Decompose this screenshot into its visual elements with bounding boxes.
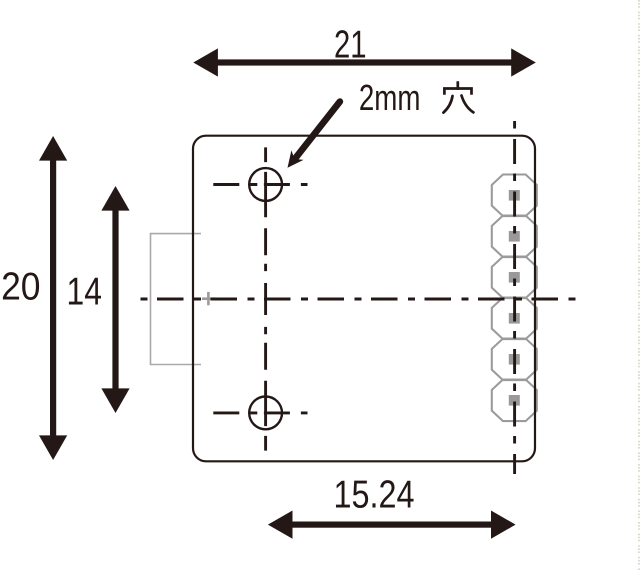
svg-text:15.24: 15.24 [334, 472, 415, 516]
svg-text:20: 20 [1, 264, 40, 308]
svg-text:2mm: 2mm [359, 78, 421, 118]
svg-text:14: 14 [67, 269, 102, 313]
svg-text:21: 21 [334, 24, 367, 67]
